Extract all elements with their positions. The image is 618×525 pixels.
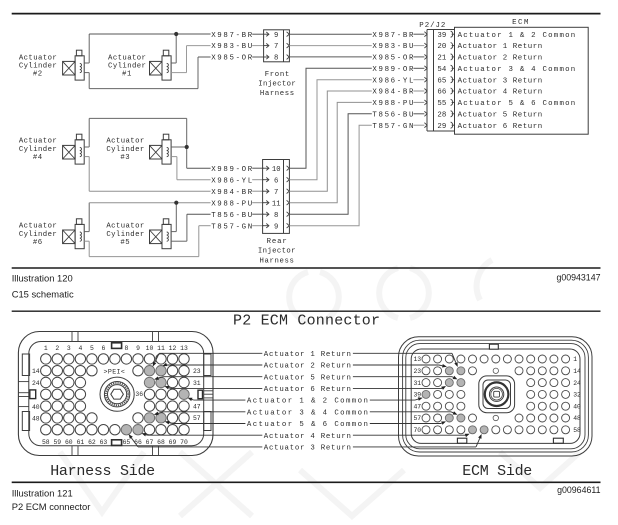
svg-text:31: 31 bbox=[193, 380, 201, 387]
label wire X985-OR (right) bbox=[372, 54, 427, 62]
harness side pin 28 (highlighted) bbox=[144, 377, 154, 387]
watermark bbox=[60, 260, 580, 516]
svg-text:Injector: Injector bbox=[258, 248, 296, 256]
callout line right row 7 bbox=[370, 421, 446, 424]
harness side key slot bottom bbox=[112, 440, 122, 446]
svg-text:Actuator 5 Return: Actuator 5 Return bbox=[264, 374, 352, 382]
wire X989-OR common cyl 3 and 4 bbox=[84, 118, 210, 168]
svg-text:8: 8 bbox=[274, 212, 278, 220]
callout line right row 8 bbox=[353, 434, 470, 437]
callout line right row 4 bbox=[353, 386, 446, 390]
svg-text:#2: #2 bbox=[33, 71, 43, 79]
junction cyl3/cyl4 common bbox=[185, 145, 189, 149]
svg-text:67: 67 bbox=[146, 439, 154, 446]
actuator cylinder #1 solenoid bbox=[150, 50, 172, 80]
wire X983-BU front-harness to P2 bbox=[289, 45, 371, 47]
svg-text:11: 11 bbox=[157, 345, 165, 352]
svg-text:14: 14 bbox=[32, 368, 40, 375]
harness side pin 21 (highlighted) bbox=[156, 366, 166, 376]
wire X985-OR front-harness to P2 bbox=[289, 56, 371, 58]
svg-text:9: 9 bbox=[274, 223, 278, 231]
wire X984-BR rear-harness riser to P2 bbox=[289, 91, 371, 191]
svg-text:40: 40 bbox=[573, 403, 581, 410]
svg-text:Illustration 120: Illustration 120 bbox=[12, 272, 73, 283]
svg-text:X983-BU: X983-BU bbox=[372, 43, 413, 51]
rear harness pin 10 arrow bbox=[263, 166, 290, 174]
ECM side pin 29 (highlighted) bbox=[445, 379, 453, 387]
svg-text:X983-BU: X983-BU bbox=[211, 43, 252, 51]
svg-text:Cylinder: Cylinder bbox=[19, 63, 57, 71]
wire X983-BU actuator 1 return bbox=[171, 46, 211, 73]
svg-text:Cylinder: Cylinder bbox=[106, 231, 144, 239]
svg-text:Actuator: Actuator bbox=[106, 138, 144, 146]
callout line right row 1 bbox=[353, 353, 458, 367]
label Actuator Cylinder #2 bbox=[19, 54, 57, 78]
wire X989-OR rear-harness riser to P2 bbox=[289, 68, 371, 168]
label wire X988-PU (right) bbox=[372, 100, 427, 108]
svg-text:55: 55 bbox=[437, 100, 446, 108]
svg-text:X986-YL: X986-YL bbox=[211, 177, 252, 185]
harness side pin 20 (highlighted) bbox=[144, 366, 154, 376]
front harness pin 9 arrow bbox=[264, 32, 290, 40]
label wire X983-BU (right) bbox=[372, 43, 427, 51]
wire X984-BR actuator 4 return bbox=[84, 157, 210, 192]
svg-text:C15 schematic: C15 schematic bbox=[12, 289, 74, 300]
svg-text:Harness: Harness bbox=[260, 257, 294, 265]
P2/J2 pin 21 bbox=[437, 54, 454, 63]
svg-text:61: 61 bbox=[77, 439, 85, 446]
svg-text:T856-BU: T856-BU bbox=[211, 212, 252, 220]
top border rule bbox=[12, 13, 601, 15]
label wire X986-YL (right) bbox=[372, 77, 427, 85]
wire X986-YL actuator 3 return bbox=[171, 157, 211, 180]
svg-text:4: 4 bbox=[78, 345, 82, 352]
wire X987-BR front-harness to P2 bbox=[289, 33, 371, 35]
svg-text:58: 58 bbox=[573, 427, 581, 434]
ECM side pin 21 (highlighted) bbox=[445, 367, 453, 375]
P2/J2 pin 20 bbox=[437, 43, 454, 52]
svg-text:57: 57 bbox=[193, 415, 201, 422]
svg-text:7: 7 bbox=[274, 43, 278, 51]
svg-text:>PEI<: >PEI< bbox=[104, 368, 125, 375]
harness side pin sockets grid bbox=[41, 354, 190, 435]
harness side row labels right bbox=[193, 368, 201, 422]
wire X988-PU rear-harness riser to P2 bbox=[289, 102, 371, 202]
svg-text:X988-PU: X988-PU bbox=[372, 100, 413, 108]
svg-text:70: 70 bbox=[180, 439, 188, 446]
harness side pin 55 (highlighted) bbox=[156, 413, 166, 423]
label wire X988-PU (left) bbox=[211, 200, 263, 208]
P2/J2 pin 28 bbox=[437, 111, 454, 120]
actuator cylinder #2 solenoid bbox=[63, 50, 85, 80]
svg-text:1: 1 bbox=[573, 356, 577, 363]
rear harness pin 6 arrow bbox=[263, 177, 290, 185]
P2/J2 pin 54 bbox=[437, 65, 454, 74]
svg-text:62: 62 bbox=[88, 439, 96, 446]
svg-text:29: 29 bbox=[437, 123, 446, 131]
svg-text:ECM: ECM bbox=[512, 19, 530, 27]
wire T856-BU actuator 5 return bbox=[171, 214, 211, 241]
ECM side pin 28 (highlighted) bbox=[457, 379, 465, 387]
ECM side row labels left bbox=[413, 356, 421, 434]
svg-text:28: 28 bbox=[437, 111, 446, 119]
callout line left row 3 bbox=[154, 377, 262, 380]
svg-text:10: 10 bbox=[146, 345, 154, 352]
svg-text:Cylinder: Cylinder bbox=[106, 146, 144, 154]
ECM side pin 39 (highlighted) bbox=[422, 390, 430, 398]
svg-text:6: 6 bbox=[101, 345, 105, 352]
svg-text:47: 47 bbox=[193, 403, 201, 410]
svg-text:Actuator 3 & 4 Common: Actuator 3 & 4 Common bbox=[247, 409, 368, 417]
label wire X984-BR (right) bbox=[372, 89, 427, 97]
rear harness pin 8 arrow bbox=[263, 212, 290, 220]
svg-text:X986-YL: X986-YL bbox=[372, 77, 413, 85]
rear harness pin 9 arrow bbox=[263, 223, 290, 231]
svg-text:Actuator 1 Return: Actuator 1 Return bbox=[458, 43, 543, 51]
svg-text:23: 23 bbox=[413, 368, 421, 375]
junction cyl1/cyl2 common bbox=[174, 32, 178, 36]
label wire T856-BU (right) bbox=[372, 111, 427, 119]
ECM side pin 66 (highlighted) bbox=[469, 426, 477, 434]
svg-text:#5: #5 bbox=[120, 239, 130, 247]
svg-text:Actuator 4 Return: Actuator 4 Return bbox=[264, 433, 352, 441]
wire X986-YL rear-harness riser to P2 bbox=[289, 80, 371, 180]
svg-text:Actuator 5 & 6 Common: Actuator 5 & 6 Common bbox=[247, 421, 368, 429]
callout line left row 1 bbox=[153, 353, 263, 366]
P2 connector harness side shell bbox=[18, 332, 213, 456]
harness side row labels left bbox=[32, 368, 40, 423]
svg-text:Actuator 2 Return: Actuator 2 Return bbox=[264, 363, 352, 371]
svg-text:36: 36 bbox=[135, 391, 143, 398]
harness side pin 29 (highlighted) bbox=[156, 377, 166, 387]
svg-text:48: 48 bbox=[32, 416, 40, 423]
svg-text:Actuator 3 Return: Actuator 3 Return bbox=[264, 445, 352, 453]
svg-text:20: 20 bbox=[437, 43, 446, 51]
svg-text:Front: Front bbox=[265, 71, 290, 79]
svg-text:1: 1 bbox=[44, 345, 48, 352]
svg-text:23: 23 bbox=[193, 368, 201, 375]
svg-text:6: 6 bbox=[274, 177, 278, 185]
harness side jackscrew hole bbox=[100, 377, 134, 411]
label Actuator Cylinder #6 bbox=[19, 223, 57, 247]
label wire X984-BR (left) bbox=[211, 189, 263, 197]
svg-text:Actuator 3 & 4 Common: Actuator 3 & 4 Common bbox=[458, 66, 576, 74]
callout line right row 2 bbox=[353, 364, 447, 368]
svg-text:Harness: Harness bbox=[260, 90, 294, 98]
harness side pin 66 (highlighted) bbox=[133, 425, 143, 435]
ECM side small guide pins bbox=[493, 368, 498, 421]
label wire X983-BU (left) bbox=[211, 43, 263, 51]
label Actuator Cylinder #5 bbox=[106, 223, 144, 247]
svg-text:#3: #3 bbox=[120, 154, 130, 162]
svg-text:9: 9 bbox=[136, 345, 140, 352]
svg-text:Harness Side: Harness Side bbox=[50, 463, 155, 480]
svg-text:10: 10 bbox=[272, 166, 281, 174]
ECM side center socket block bbox=[479, 376, 515, 413]
callout line right row 9 bbox=[353, 434, 482, 447]
svg-text:P2 ECM Connector: P2 ECM Connector bbox=[233, 312, 380, 329]
svg-text:Actuator 5 Return: Actuator 5 Return bbox=[458, 111, 543, 119]
svg-text:9: 9 bbox=[274, 32, 278, 40]
svg-text:#4: #4 bbox=[33, 154, 43, 162]
svg-text:59: 59 bbox=[53, 439, 61, 446]
wire X987-BR common cyl 1 and 2 bbox=[84, 34, 210, 63]
connector rear injector harness bbox=[263, 160, 290, 234]
actuator cylinder #6 solenoid bbox=[63, 219, 85, 249]
actuator cylinder #4 solenoid bbox=[63, 134, 85, 164]
svg-text:Actuator: Actuator bbox=[19, 138, 57, 146]
svg-text:32: 32 bbox=[573, 392, 581, 399]
svg-text:69: 69 bbox=[169, 439, 177, 446]
svg-text:Actuator 3 Return: Actuator 3 Return bbox=[458, 77, 543, 85]
svg-text:Actuator 4 Return: Actuator 4 Return bbox=[458, 89, 543, 97]
callout line left row 7 bbox=[165, 421, 246, 425]
svg-text:12: 12 bbox=[169, 345, 177, 352]
harness side top pin numbers 1-13 bbox=[44, 345, 188, 352]
svg-text:66: 66 bbox=[437, 89, 446, 97]
wire T857-GN actuator 6 return bbox=[84, 226, 210, 257]
wire X988-PU common cyl 5 and 6 bbox=[84, 203, 210, 232]
wire T857-GN rear-harness riser to P2 bbox=[289, 125, 371, 226]
P2 connector ECM side shell bbox=[399, 337, 593, 456]
front harness pin 8 arrow bbox=[264, 55, 290, 63]
ECM side edge tabs bbox=[457, 344, 563, 443]
svg-text:57: 57 bbox=[413, 415, 421, 422]
svg-text:g00964611: g00964611 bbox=[557, 485, 600, 495]
svg-text:48: 48 bbox=[573, 415, 581, 422]
ECM side row labels right bbox=[573, 356, 581, 434]
label wire X987-BR (right) bbox=[372, 32, 427, 40]
P2/J2 pin 39 bbox=[437, 31, 454, 40]
label Actuator Cylinder #4 bbox=[19, 138, 57, 162]
svg-text:54: 54 bbox=[437, 66, 446, 74]
actuator cylinder #3 solenoid bbox=[150, 134, 172, 164]
label Actuator Cylinder #1 bbox=[108, 54, 146, 78]
svg-text:Cylinder: Cylinder bbox=[108, 63, 146, 71]
svg-text:Actuator 1 & 2 Common: Actuator 1 & 2 Common bbox=[458, 32, 576, 40]
svg-text:7: 7 bbox=[274, 189, 278, 197]
svg-text:60: 60 bbox=[65, 439, 73, 446]
wire T856-BU rear-harness riser to P2 bbox=[289, 114, 371, 214]
P2/J2 pin 66 bbox=[437, 88, 454, 97]
svg-text:Actuator 5 & 6 Common: Actuator 5 & 6 Common bbox=[458, 100, 576, 108]
svg-text:#1: #1 bbox=[122, 71, 132, 79]
svg-text:Injector: Injector bbox=[258, 80, 296, 88]
rear harness pin 11 arrow bbox=[263, 200, 290, 208]
svg-text:ECM Side: ECM Side bbox=[462, 463, 532, 480]
svg-text:11: 11 bbox=[272, 200, 281, 208]
svg-text:13: 13 bbox=[180, 345, 188, 352]
P2/J2 pin 55 bbox=[437, 99, 454, 108]
svg-text:13: 13 bbox=[413, 356, 421, 363]
svg-text:Actuator 6 Return: Actuator 6 Return bbox=[264, 386, 352, 394]
svg-text:Actuator 1 & 2 Common: Actuator 1 & 2 Common bbox=[247, 398, 368, 406]
illustration 121 top rule bbox=[12, 310, 601, 312]
callout line right row 3 bbox=[353, 376, 458, 380]
svg-text:Rear: Rear bbox=[267, 238, 287, 246]
label Front Injector Harness bbox=[258, 71, 296, 98]
svg-text:Actuator: Actuator bbox=[108, 54, 146, 62]
harness side edge tabs bbox=[18, 332, 213, 456]
P2/J2 pin 29 bbox=[437, 122, 454, 131]
label wire X987-BR (left) bbox=[211, 32, 263, 40]
label Actuator Cylinder #3 bbox=[106, 138, 144, 162]
illustration 120 bottom rule bbox=[12, 267, 601, 269]
svg-text:X988-PU: X988-PU bbox=[211, 200, 252, 208]
svg-text:40: 40 bbox=[32, 404, 40, 411]
label wire X985-OR (left) bbox=[211, 55, 263, 63]
svg-text:g00943147: g00943147 bbox=[556, 273, 600, 283]
svg-text:T857-GN: T857-GN bbox=[211, 223, 252, 231]
svg-text:Illustration 121: Illustration 121 bbox=[12, 487, 73, 498]
svg-text:T857-GN: T857-GN bbox=[372, 123, 413, 131]
svg-text:Actuator: Actuator bbox=[19, 223, 57, 231]
svg-text:58: 58 bbox=[42, 439, 50, 446]
callout line left row 9 bbox=[129, 434, 263, 447]
callout line left row 6 bbox=[154, 412, 246, 416]
svg-text:65: 65 bbox=[123, 439, 131, 446]
svg-text:Cylinder: Cylinder bbox=[19, 231, 57, 239]
label Rear Injector Harness bbox=[258, 238, 296, 265]
svg-text:#6: #6 bbox=[33, 239, 43, 247]
rear harness pin 7 arrow bbox=[263, 189, 290, 197]
P2/J2 pin 65 bbox=[437, 77, 454, 86]
label wire T856-BU (left) bbox=[211, 212, 263, 220]
svg-text:Actuator 2 Return: Actuator 2 Return bbox=[458, 55, 543, 63]
svg-text:P2/J2: P2/J2 bbox=[419, 22, 445, 30]
label wire T857-GN (right) bbox=[372, 123, 427, 131]
callout line right row 5 bbox=[370, 397, 423, 400]
label wire X989-OR (left) bbox=[211, 166, 263, 174]
svg-text:Actuator: Actuator bbox=[19, 54, 57, 62]
svg-text:63: 63 bbox=[100, 439, 108, 446]
ECM module box bbox=[455, 27, 589, 134]
callout line left row 5 bbox=[188, 398, 246, 401]
label wire X989-OR (right) bbox=[372, 66, 427, 74]
svg-text:Cylinder: Cylinder bbox=[19, 146, 57, 154]
ECM side pin grid bbox=[422, 355, 570, 434]
connector front injector harness bbox=[264, 30, 290, 62]
label wire T857-GN (left) bbox=[211, 223, 263, 231]
svg-text:65: 65 bbox=[437, 77, 446, 85]
svg-text:39: 39 bbox=[437, 32, 446, 40]
svg-text:Actuator: Actuator bbox=[106, 223, 144, 231]
front harness pin 7 arrow bbox=[264, 43, 290, 51]
svg-text:Actuator 6 Return: Actuator 6 Return bbox=[458, 123, 543, 131]
svg-text:24: 24 bbox=[32, 380, 40, 387]
illustration 121 bottom rule bbox=[12, 481, 601, 483]
connector P2/J2 bbox=[427, 30, 455, 132]
harness side pin 65 (highlighted) bbox=[121, 425, 131, 435]
svg-text:31: 31 bbox=[413, 380, 421, 387]
ECM side pin 65 (highlighted) bbox=[480, 426, 488, 434]
callout line left row 2 bbox=[162, 363, 262, 366]
ECM side pin 55 (highlighted) bbox=[445, 414, 453, 422]
ECM side pin 20 (highlighted) bbox=[457, 367, 465, 375]
callout line left row 4 bbox=[164, 386, 262, 389]
svg-text:24: 24 bbox=[573, 380, 581, 387]
ECM side pin 54 (highlighted) bbox=[457, 414, 465, 422]
harness side bottom pin numbers 58-70 bbox=[42, 439, 188, 446]
svg-text:Actuator 1 Return: Actuator 1 Return bbox=[264, 351, 352, 359]
svg-text:70: 70 bbox=[413, 427, 421, 434]
svg-text:8: 8 bbox=[124, 345, 128, 352]
callout line left row 8 bbox=[142, 433, 263, 436]
callout line right row 6 bbox=[370, 411, 458, 415]
svg-text:T856-BU: T856-BU bbox=[372, 111, 413, 119]
svg-text:5: 5 bbox=[90, 345, 94, 352]
harness side pin 54 (highlighted) bbox=[144, 413, 154, 423]
harness side pin 39 (highlighted) bbox=[179, 389, 189, 399]
svg-text:P2 ECM connector: P2 ECM connector bbox=[12, 501, 91, 512]
actuator cylinder #5 solenoid bbox=[150, 219, 172, 249]
wire X985-OR actuator 2 return bbox=[84, 57, 210, 89]
svg-text:8: 8 bbox=[274, 55, 278, 63]
svg-text:68: 68 bbox=[157, 439, 165, 446]
harness side key slot top bbox=[112, 343, 122, 349]
junction cyl5/cyl6 common bbox=[174, 201, 178, 205]
svg-text:14: 14 bbox=[573, 368, 581, 375]
svg-text:21: 21 bbox=[437, 55, 446, 63]
svg-text:47: 47 bbox=[413, 403, 421, 410]
svg-text:3: 3 bbox=[67, 345, 71, 352]
label wire X986-YL (left) bbox=[211, 177, 263, 185]
svg-text:2: 2 bbox=[55, 345, 59, 352]
